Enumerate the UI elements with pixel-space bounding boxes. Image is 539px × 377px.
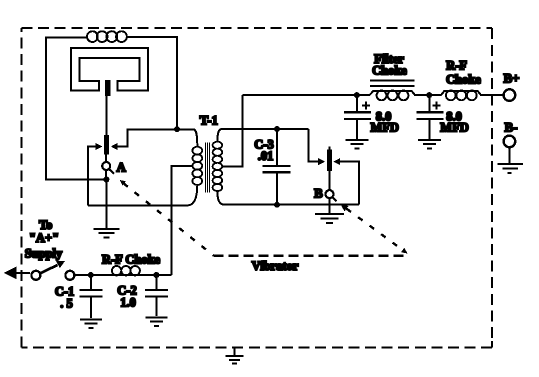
terminal B- (504, 136, 516, 148)
filter choke core bars (370, 81, 414, 86)
junction dot filter cap 2 (426, 92, 432, 98)
transformer T-1 secondary bottom lead (217, 191, 359, 205)
capacitor C-3 plates (263, 166, 291, 172)
bottom supply rail (74, 274, 171, 276)
ground cap 2 (418, 140, 441, 149)
transformer T-1 secondary top lead (217, 129, 308, 142)
transformer T-1 primary winding (192, 147, 202, 185)
plus sign cap 1 (362, 101, 370, 109)
svg-text:Choke: Choke (446, 72, 481, 86)
supply lead arrow out (12, 272, 30, 274)
switch terminal circle left (31, 271, 40, 280)
ground below B (315, 214, 344, 223)
magnet core frame (71, 48, 148, 91)
wire node A to ground (105, 180, 107, 228)
ground C-1 (80, 319, 102, 328)
dashed enclosure border (22, 28, 493, 347)
ground C-2 (145, 317, 167, 326)
svg-text:R-F: R-F (446, 58, 467, 72)
ground below A (93, 229, 119, 238)
wire circle B to ground (329, 198, 331, 213)
transformer T-1 core (205, 143, 209, 193)
svg-text:"A+": "A+" (29, 231, 59, 245)
r-f choke (bottom) coil (112, 266, 140, 275)
filter choke coil (377, 91, 409, 101)
svg-text:MFD: MFD (370, 120, 398, 134)
B+ rail (242, 91, 503, 95)
capacitor 8.0 MFD no.1 (356, 95, 358, 111)
svg-text:1.0: 1.0 (120, 295, 136, 309)
border corner reinforcement (491, 341, 493, 347)
svg-text:B+: B+ (503, 71, 519, 86)
reed wire (106, 96, 108, 135)
right contact arrow at B (333, 158, 340, 165)
junction dot primary top (174, 126, 180, 132)
svg-text:Choke: Choke (372, 64, 407, 78)
vibrator callout dashed line from A (120, 180, 126, 186)
transformer T-1 secondary winding (213, 142, 223, 191)
svg-text:A: A (117, 160, 127, 175)
junction dot C-3 bottom (274, 202, 280, 208)
wire: coil right lead down to node at primary top (126, 37, 177, 130)
contact circle A (102, 162, 110, 170)
left contact arrow at A (88, 147, 96, 206)
vibrator driver coil (87, 31, 127, 42)
vibrator callout dashed line from B (341, 204, 349, 211)
svg-text:R-F Choke: R-F Choke (102, 253, 161, 267)
svg-text:MFD: MFD (440, 120, 468, 134)
svg-text:.01: .01 (258, 149, 274, 163)
contact bar A (104, 135, 109, 155)
wire B- to ground (508, 147, 510, 163)
vibrator callout dashed horizontal (214, 254, 409, 256)
capacitor C-3 top wire (276, 129, 278, 165)
right contact arrow at A (118, 129, 177, 146)
wire bar to circle A (105, 155, 107, 163)
svg-text:T-1: T-1 (200, 113, 218, 128)
plus sign cap 2 (432, 101, 440, 109)
svg-text:To: To (39, 218, 52, 232)
switch terminal circle right (65, 271, 74, 280)
wire circle A to junction (105, 170, 107, 180)
capacitor C-2 (155, 275, 157, 289)
contact bar B (327, 150, 332, 171)
svg-text:Vibrator: Vibrator (252, 259, 299, 273)
wire bar B to circle B (329, 171, 331, 190)
junction dot filter cap 1 (354, 92, 360, 98)
junction dot C-1 (88, 272, 94, 278)
r-f choke (top) coil (446, 91, 477, 101)
capacitor C-3 bottom wire (276, 173, 278, 204)
switch blade with arrow (40, 265, 57, 273)
stub above bar B (329, 147, 331, 150)
contact circle B (326, 190, 334, 198)
svg-text:B: B (314, 186, 323, 201)
wire secondary top to contact B left arrow (309, 129, 319, 162)
transformer T-1 primary bottom lead (88, 185, 198, 205)
svg-text:B-: B- (505, 119, 518, 134)
ground B- (498, 164, 524, 173)
junction dot C-3 top (274, 126, 280, 132)
terminal B+ (504, 89, 516, 101)
armature bar (105, 80, 110, 96)
chassis ground at bottom border (234, 347, 236, 355)
wire: coil left lead down to node A loop (46, 38, 103, 180)
capacitor 8.0 MFD no.2 (428, 95, 430, 111)
transformer T-1 secondary center tap wire to B+ rail (222, 95, 243, 166)
ground cap 1 (345, 140, 368, 149)
transformer T-1 primary top lead (177, 129, 197, 147)
svg-text:Supply: Supply (25, 247, 63, 261)
junction dot C-2 (153, 272, 159, 278)
capacitor C-1 (90, 275, 92, 289)
svg-text:. 5: . 5 (60, 297, 73, 311)
junction dot node A (103, 177, 109, 183)
transformer T-1 primary center tap wire (171, 166, 193, 275)
